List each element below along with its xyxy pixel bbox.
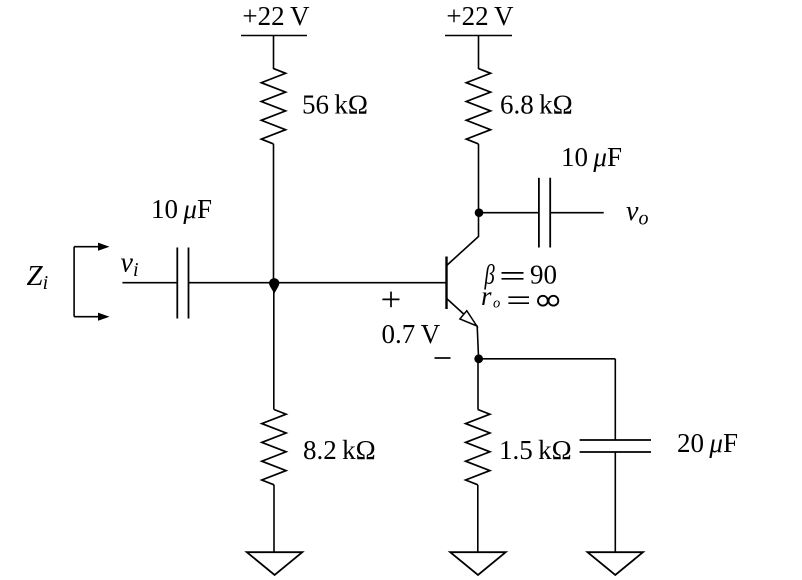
ground (divider) <box>247 552 302 575</box>
label minus (vbe) <box>435 357 451 359</box>
wire bypass down to C3 <box>614 359 616 440</box>
equals sign (beta line) <box>502 272 524 274</box>
supply +22V (left) bar <box>241 35 307 37</box>
wire C1 to base <box>189 282 447 284</box>
transistor Q1 base bar <box>445 257 447 310</box>
capacitor C1 plate left <box>176 248 178 319</box>
svg-text:8.2 kΩ: 8.2 kΩ <box>303 435 376 465</box>
capacitor C3 plate top <box>580 439 651 441</box>
supply +22V (right) bar <box>445 35 512 37</box>
Zi bracket bottom arm <box>74 316 100 318</box>
Zi bracket vertical <box>73 247 75 317</box>
capacitor C1 plate right <box>188 248 190 319</box>
wire R2 to ground <box>273 485 275 552</box>
emitter node dot <box>474 354 483 363</box>
capacitor C3 plate bottom <box>580 451 651 453</box>
svg-text:0.7 V: 0.7 V <box>382 319 441 349</box>
wire node A to R2 <box>273 283 275 410</box>
Zi bracket top arrowhead <box>98 243 110 251</box>
svg-text:1.5 kΩ: 1.5 kΩ <box>499 435 572 465</box>
wire R4 to ground <box>477 485 479 552</box>
label + (vbe) <box>382 298 399 300</box>
resistor R4 1.5k zigzag <box>466 410 490 485</box>
transistor Q1 emitter lead <box>447 298 479 359</box>
collector node dot <box>475 208 484 217</box>
resistor R3 6.8k zigzag <box>466 69 490 144</box>
wire collector node to C2 <box>479 212 539 214</box>
wire emitter node to R4 <box>477 359 479 410</box>
wire supply bar to R3 <box>478 36 480 70</box>
svg-text:90: 90 <box>530 260 557 290</box>
infinity symbol <box>538 296 548 306</box>
label beta <box>484 261 495 290</box>
svg-text:o: o <box>493 296 500 312</box>
Zi bracket top arm <box>74 246 100 248</box>
wire C2 to output <box>550 212 604 214</box>
svg-text:r: r <box>481 281 492 311</box>
svg-text:10 μF: 10 μF <box>151 194 212 224</box>
svg-text:6.8 kΩ: 6.8 kΩ <box>500 90 573 120</box>
wire supply bar to R1 <box>273 36 275 70</box>
transistor Q1 emitter arrowhead (open) <box>460 311 477 326</box>
node A junction dot (teardrop) <box>269 278 279 288</box>
svg-text:56 kΩ: 56 kΩ <box>302 90 368 120</box>
wire input to C1 <box>122 282 177 284</box>
svg-text:+22 V: +22 V <box>242 1 310 31</box>
Zi bracket bottom arrowhead <box>98 313 110 321</box>
wire emitter node to bypass branch <box>479 358 616 360</box>
equals sign (ro line) <box>508 296 529 298</box>
svg-text:10 μF: 10 μF <box>561 142 622 172</box>
transistor Q1 collector lead <box>447 213 479 266</box>
ground (bypass) <box>588 552 644 575</box>
capacitor C2 plate left <box>538 178 540 248</box>
resistor R1 56k zigzag <box>261 69 285 144</box>
resistor R2 8.2k zigzag <box>262 410 286 485</box>
wire R1 to node A <box>273 144 275 283</box>
wire R3 to collector node <box>478 144 480 213</box>
wire C3 to ground <box>614 452 616 552</box>
ground (emitter) <box>450 552 506 575</box>
svg-text:+22 V: +22 V <box>446 1 514 31</box>
svg-text:20 μF: 20 μF <box>677 428 738 458</box>
capacitor C2 plate right <box>549 178 551 248</box>
